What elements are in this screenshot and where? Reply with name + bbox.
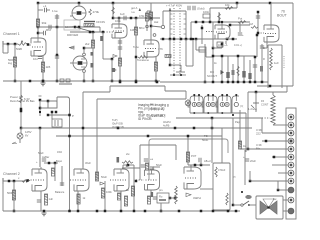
svg-text:Tube: Tube [133,45,139,49]
svg-text:1 ke: 1 ke [52,9,58,13]
svg-text:6.3 by pmo: 6.3 by pmo [150,107,163,111]
svg-text:SCOUT: SCOUT [207,74,217,78]
svg-text:Pap: Pap [235,120,240,124]
svg-text:5w: 5w [273,197,276,201]
svg-text:100n: 100n [203,10,210,14]
svg-text:log: log [8,61,12,65]
svg-text:222: 222 [256,132,261,136]
svg-text:TuP): TuP) [112,118,118,122]
svg-text:+ 4.7uF 450V: + 4.7uF 450V [166,4,182,8]
svg-text:2w: 2w [126,152,129,156]
svg-text:0.01 +(: 0.01 +( [234,44,242,47]
svg-text:Hal: Hal [154,20,159,24]
svg-text:2k2: 2k2 [85,42,90,46]
svg-text:n.a: n.a [131,11,135,14]
svg-text:BPul: BPul [139,27,145,30]
svg-text:Bopo: Bopo [56,159,63,163]
svg-text:4%0: 4%0 [57,151,63,154]
svg-text:50uF: 50uF [38,152,44,155]
svg-text:POT: POT [191,154,197,158]
svg-text:Rfd: Rfd [46,28,51,32]
svg-text:49kPul: 49kPul [193,196,201,200]
svg-text:1M: 1M [130,28,135,32]
svg-text:1.2nAq: 1.2nAq [248,107,257,111]
svg-text:Pot: Pot [238,17,242,21]
svg-text:+: + [242,33,244,37]
svg-text:Channel 1: Channel 1 [3,32,20,36]
svg-text:470k: 470k [93,10,100,14]
svg-text:DRIVER: DRIVER [67,33,79,37]
svg-text:pm.: pm. [159,189,163,192]
svg-text:B.: B. [263,47,266,50]
svg-text:Balance: Balance [55,190,65,194]
svg-text:CONT: CONT [261,103,269,107]
svg-text:1M: 1M [249,22,254,26]
svg-text:Ru: Ru [159,195,163,199]
svg-text:1uF: 1uF [120,12,125,16]
svg-text:50uF: 50uF [101,175,107,179]
svg-text:470k: 470k [139,15,145,18]
svg-text:50kB: 50kB [16,47,22,51]
svg-text:1uF: 1uF [274,61,279,65]
svg-text:10k: 10k [225,3,230,7]
svg-text:10u: 10u [33,57,38,61]
svg-text:500k: 500k [7,191,14,195]
svg-text:R: R [263,58,265,61]
svg-text:176: 176 [158,47,163,51]
svg-text:20uF: 20uF [250,159,256,163]
svg-text:4uPB: 4uPB [163,124,170,128]
svg-text:12AX7: 12AX7 [65,25,74,29]
svg-text:50uF: 50uF [202,138,209,142]
svg-text:BOUT: BOUT [277,14,288,18]
svg-text:6V: 6V [25,134,29,138]
svg-text:100k: 100k [115,19,121,23]
svg-text:39k: 39k [42,21,47,25]
svg-text:IDuP IDB: IDuP IDB [112,122,123,126]
svg-text:30uF: 30uF [85,161,91,165]
svg-text:lav...: lav... [150,102,156,106]
svg-text:got A: got A [131,6,138,10]
svg-text:1k5: 1k5 [46,65,51,69]
svg-text:C0/C0N: C0/C0N [96,21,105,24]
svg-text:Pk o4P5dB: Pk o4P5dB [150,114,163,118]
svg-text:Tomalume: Tomalume [137,58,150,62]
svg-text:100k: 100k [106,190,112,194]
svg-text:50uF: 50uF [156,163,162,167]
svg-text:P: P [72,114,74,118]
svg-text:6.3V: 6.3V [24,97,30,101]
svg-text:1uF: 1uF [49,197,54,201]
svg-text:ID POLYB: ID POLYB [112,125,124,129]
svg-text:470uF: 470uF [218,168,226,172]
svg-text:40uPd: 40uPd [163,120,171,124]
svg-text:AuBar: AuBar [42,155,49,159]
svg-text:AB+d: AB+d [204,159,211,163]
svg-text:Bla: Bla [256,147,260,151]
svg-text:)=(: )=( [240,104,243,108]
svg-text:+1: +1 [43,4,47,8]
